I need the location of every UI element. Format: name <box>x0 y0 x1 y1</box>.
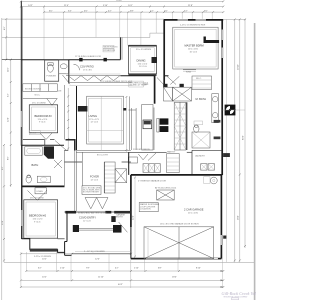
powder room <box>45 60 59 81</box>
svg-text:40'2": 40'2" <box>118 284 123 286</box>
svg-text:9'2": 9'2" <box>2 166 4 170</box>
svg-text:W.I.C.: W.I.C. <box>196 78 202 80</box>
svg-text:DR HDR 8'0: DR HDR 8'0 <box>104 50 116 52</box>
garage <box>131 174 222 176</box>
tub <box>25 147 43 156</box>
svg-text:8'0 HDR HEIGHT: 8'0 HDR HEIGHT <box>83 192 100 194</box>
svg-text:10' CLG: 10' CLG <box>139 66 147 68</box>
svg-text:10'2": 10'2" <box>42 277 47 279</box>
svg-text:4" RISER AT GARAGE DOOR: 4" RISER AT GARAGE DOOR <box>138 180 167 183</box>
svg-text:BOARD AND BATTEN SIDING: BOARD AND BATTEN SIDING <box>78 211 107 214</box>
svg-text:PANTRY: PANTRY <box>167 151 176 154</box>
svg-text:BOOKS: BOOKS <box>25 89 33 91</box>
svg-text:17'4 x 8'0: 17'4 x 8'0 <box>83 69 93 71</box>
svg-text:BEDROOM #2: BEDROOM #2 <box>29 214 47 218</box>
svg-text:14'0 x 16'0: 14'0 x 16'0 <box>188 49 199 51</box>
svg-text:3'0 x 5'0 WDWS: 3'0 x 5'0 WDWS <box>136 49 152 51</box>
svg-text:11'0 x 12'0: 11'0 x 12'0 <box>33 219 44 221</box>
svg-text:5'10": 5'10" <box>103 5 108 7</box>
left dim vertical C <box>3 145 5 262</box>
svg-text:COV PATIO: COV PATIO <box>80 64 94 68</box>
top dim line 3 <box>44 11 223 13</box>
linen + door <box>35 188 46 194</box>
svg-text:28'4": 28'4" <box>238 215 240 220</box>
svg-text:7'8": 7'8" <box>86 267 90 269</box>
svg-text:BOOKS: BOOKS <box>34 89 42 91</box>
pantry tall cabinet <box>167 154 180 173</box>
svg-text:74'10": 74'10" <box>116 0 122 2</box>
svg-text:BEDROOM #3: BEDROOM #3 <box>35 114 53 118</box>
svg-text:2'6": 2'6" <box>164 11 168 13</box>
svg-text:WDW HDR 8'0: WDW HDR 8'0 <box>104 47 119 49</box>
svg-text:5'2": 5'2" <box>184 11 188 13</box>
attic access <box>157 190 175 200</box>
porch slab edge <box>72 253 131 255</box>
bedroom3 <box>29 105 57 133</box>
svg-text:10' CLG: 10' CLG <box>190 51 198 53</box>
svg-text:3'8": 3'8" <box>130 11 134 13</box>
bottom extension verticals <box>25 252 27 271</box>
kitchen note box <box>129 81 144 87</box>
top dim ticks line1 <box>20 0 224 2</box>
svg-text:9' CLG: 9' CLG <box>34 221 41 223</box>
svg-text:10'2": 10'2" <box>42 258 47 260</box>
svg-text:2'2": 2'2" <box>150 11 154 13</box>
svg-text:M. BATH: M. BATH <box>196 97 206 101</box>
svg-text:11'10": 11'10" <box>98 277 104 279</box>
wic top right shelves <box>192 76 212 90</box>
X closet (hall) <box>164 87 173 101</box>
upper horizontal reference lines <box>2 18 164 20</box>
svg-text:8'10": 8'10" <box>196 267 201 269</box>
svg-text:LIVING: LIVING <box>89 114 98 118</box>
closet row <box>23 84 58 92</box>
svg-text:11'0 x 11'0: 11'0 x 11'0 <box>38 119 48 121</box>
right sheet border <box>254 23 256 300</box>
master inner room <box>173 27 218 69</box>
mud cubbies <box>143 164 160 173</box>
svg-text:2'8 x 5'0 WDW: 2'8 x 5'0 WDW <box>30 198 44 200</box>
svg-text:5'6": 5'6" <box>204 11 208 13</box>
svg-text:11'0 x 11'0: 11'0 x 11'0 <box>138 63 148 65</box>
dining bottom window sill <box>128 74 156 76</box>
svg-text:2 - 10" SQ COLUMNS: 2 - 10" SQ COLUMNS <box>84 251 105 253</box>
bottom dim lines <box>21 253 131 255</box>
top dim line 1 <box>21 0 223 2</box>
bedroom3 door <box>40 133 52 140</box>
svg-text:9' CLG: 9' CLG <box>39 122 46 124</box>
svg-text:2'10": 2'10" <box>134 267 139 269</box>
svg-text:16'0 x 8'0 OHD GARAGE DOOR 8': 16'0 x 8'0 OHD GARAGE DOOR 8'0 HDR <box>160 223 199 226</box>
left dim vertical B <box>10 60 12 187</box>
extension verticals from top dims <box>43 7 45 60</box>
svg-text:POCKET OFFICE: POCKET OFFICE <box>133 149 150 151</box>
svg-text:POWDER: POWDER <box>47 76 57 78</box>
entry door chevrons <box>85 198 108 209</box>
svg-text:29'10": 29'10" <box>238 64 240 70</box>
svg-text:ISLAND 42" HIGH: ISLAND 42" HIGH <box>129 83 146 86</box>
svg-text:3-2'8 x 5'0 WDWS: 3-2'8 x 5'0 WDWS <box>34 256 51 258</box>
svg-text:2'8 x 5'0 WDW: 2'8 x 5'0 WDW <box>32 103 46 105</box>
svg-text:LOCATION: LOCATION <box>140 208 151 211</box>
svg-text:4'0": 4'0" <box>4 26 6 30</box>
svg-text:12' SLIDING GLASS DOOR: 12' SLIDING GLASS DOOR <box>75 55 101 58</box>
toilet <box>26 176 31 183</box>
wall x120.5 <box>119 37 121 59</box>
svg-text:4'2": 4'2" <box>115 267 119 269</box>
svg-text:11'6": 11'6" <box>8 67 10 72</box>
wall y162 <box>65 161 83 163</box>
svg-text:6'2": 6'2" <box>38 267 42 269</box>
svg-text:12'0": 12'0" <box>95 258 100 260</box>
bedroom2 bottom step + window <box>22 239 58 250</box>
svg-text:MASTER BDRM: MASTER BDRM <box>185 44 204 48</box>
left dim vertical A <box>5 19 7 60</box>
svg-text:21'4": 21'4" <box>64 5 69 7</box>
svg-text:LIN: LIN <box>58 91 62 93</box>
dark linen block <box>44 146 54 158</box>
bath <box>22 144 64 146</box>
master block <box>164 19 224 21</box>
svg-text:12' CLG: 12' CLG <box>91 122 99 124</box>
left sheet border <box>1 18 3 300</box>
master right wall stub <box>204 37 220 44</box>
front wall left wing y59.6 <box>2 59 22 61</box>
svg-text:17'0 x 17'0: 17'0 x 17'0 <box>89 119 100 121</box>
svg-text:LINEN: LINEN <box>37 191 44 193</box>
porch walls <box>64 211 130 213</box>
svg-text:6'0": 6'0" <box>49 11 53 13</box>
svg-text:8'0": 8'0" <box>8 156 10 160</box>
kitchen counters <box>131 108 133 150</box>
left exterior wall upper <box>20 1 22 145</box>
top dim ticks line3 <box>43 11 224 13</box>
svg-text:COVD ENTRY: COVD ENTRY <box>79 215 96 219</box>
svg-text:80'0": 80'0" <box>243 135 245 140</box>
top-right extension line <box>223 18 246 20</box>
svg-text:2-2'8 x 5'0 WDWS 8'0 HDR: 2-2'8 x 5'0 WDWS 8'0 HDR <box>180 25 206 27</box>
svg-text:10'1": 10'1" <box>128 5 133 7</box>
svg-text:ATTIC ACCESS 22x54: ATTIC ACCESS 22x54 <box>155 187 177 190</box>
svg-text:5'4": 5'4" <box>68 11 72 13</box>
vanity <box>37 176 50 182</box>
svg-text:4'2": 4'2" <box>108 11 112 13</box>
bath bottom wall <box>22 185 65 187</box>
svg-text:2'8 DR: 2'8 DR <box>30 132 37 134</box>
mbath tub bottom <box>192 132 210 148</box>
pantry shelves <box>174 102 186 150</box>
garage door X <box>144 227 214 259</box>
wall x154.5 <box>154 76 156 104</box>
svg-text:12' CLG: 12' CLG <box>83 220 91 222</box>
right dim verticals <box>234 19 236 262</box>
living room <box>70 82 132 84</box>
svg-text:21'0 x 23'0: 21'0 x 23'0 <box>188 212 199 214</box>
svg-text:4'6": 4'6" <box>84 11 88 13</box>
svg-text:12' CLG: 12' CLG <box>91 180 99 182</box>
left exterior wall lower <box>21 146 23 240</box>
svg-text:21'8": 21'8" <box>188 5 193 7</box>
svg-text:22'4": 22'4" <box>133 215 135 220</box>
wall y75.8 kitchen top <box>120 75 154 77</box>
stairs/closet right of foyer <box>104 162 115 193</box>
svg-text:LAUNDRY: LAUNDRY <box>195 155 206 158</box>
ovens <box>160 118 169 124</box>
AC fan ornament <box>225 105 236 116</box>
svg-text:14'2": 14'2" <box>28 5 33 7</box>
svg-text:2 CAR GARAGE: 2 CAR GARAGE <box>184 208 204 212</box>
svg-text:6'8": 6'8" <box>158 267 162 269</box>
bedroom2 <box>24 200 58 238</box>
svg-text:FOYER: FOYER <box>90 175 99 179</box>
svg-text:2'10": 2'10" <box>60 267 65 269</box>
svg-text:8'0 CLG HT: 8'0 CLG HT <box>97 155 109 157</box>
svg-text:Gill-Rock Creek Valley: Gill-Rock Creek Valley <box>222 291 257 296</box>
garage notes box <box>139 203 158 212</box>
porch posts <box>73 225 79 232</box>
svg-text:W.I.C.: W.I.C. <box>35 95 41 97</box>
svg-text:12'0 SLIDING GLASS DR 8'0 HDR: 12'0 SLIDING GLASS DR 8'0 HDR <box>100 80 133 83</box>
master eave step <box>150 32 164 34</box>
note boxes above patio <box>103 45 114 48</box>
svg-text:DINING: DINING <box>137 59 146 63</box>
hall walls center <box>128 151 166 153</box>
svg-text:13'6": 13'6" <box>2 220 4 225</box>
left wing bottom connector <box>58 238 65 240</box>
svg-text:KING: KING <box>186 72 191 74</box>
svg-text:ENTRY: ENTRY <box>116 217 124 219</box>
dining room <box>128 46 156 74</box>
svg-text:12'4": 12'4" <box>8 117 10 122</box>
cov patio top wall + posts <box>65 59 121 61</box>
door swings hall <box>157 76 179 86</box>
top dim line 2 <box>21 6 223 8</box>
svg-text:5'2": 5'2" <box>8 93 10 97</box>
hallway walls left of living <box>67 88 69 150</box>
svg-text:18'4": 18'4" <box>172 277 177 279</box>
top dim ticks line2 <box>20 6 224 8</box>
water heater <box>210 177 217 184</box>
svg-text:BATH: BATH <box>32 163 39 167</box>
